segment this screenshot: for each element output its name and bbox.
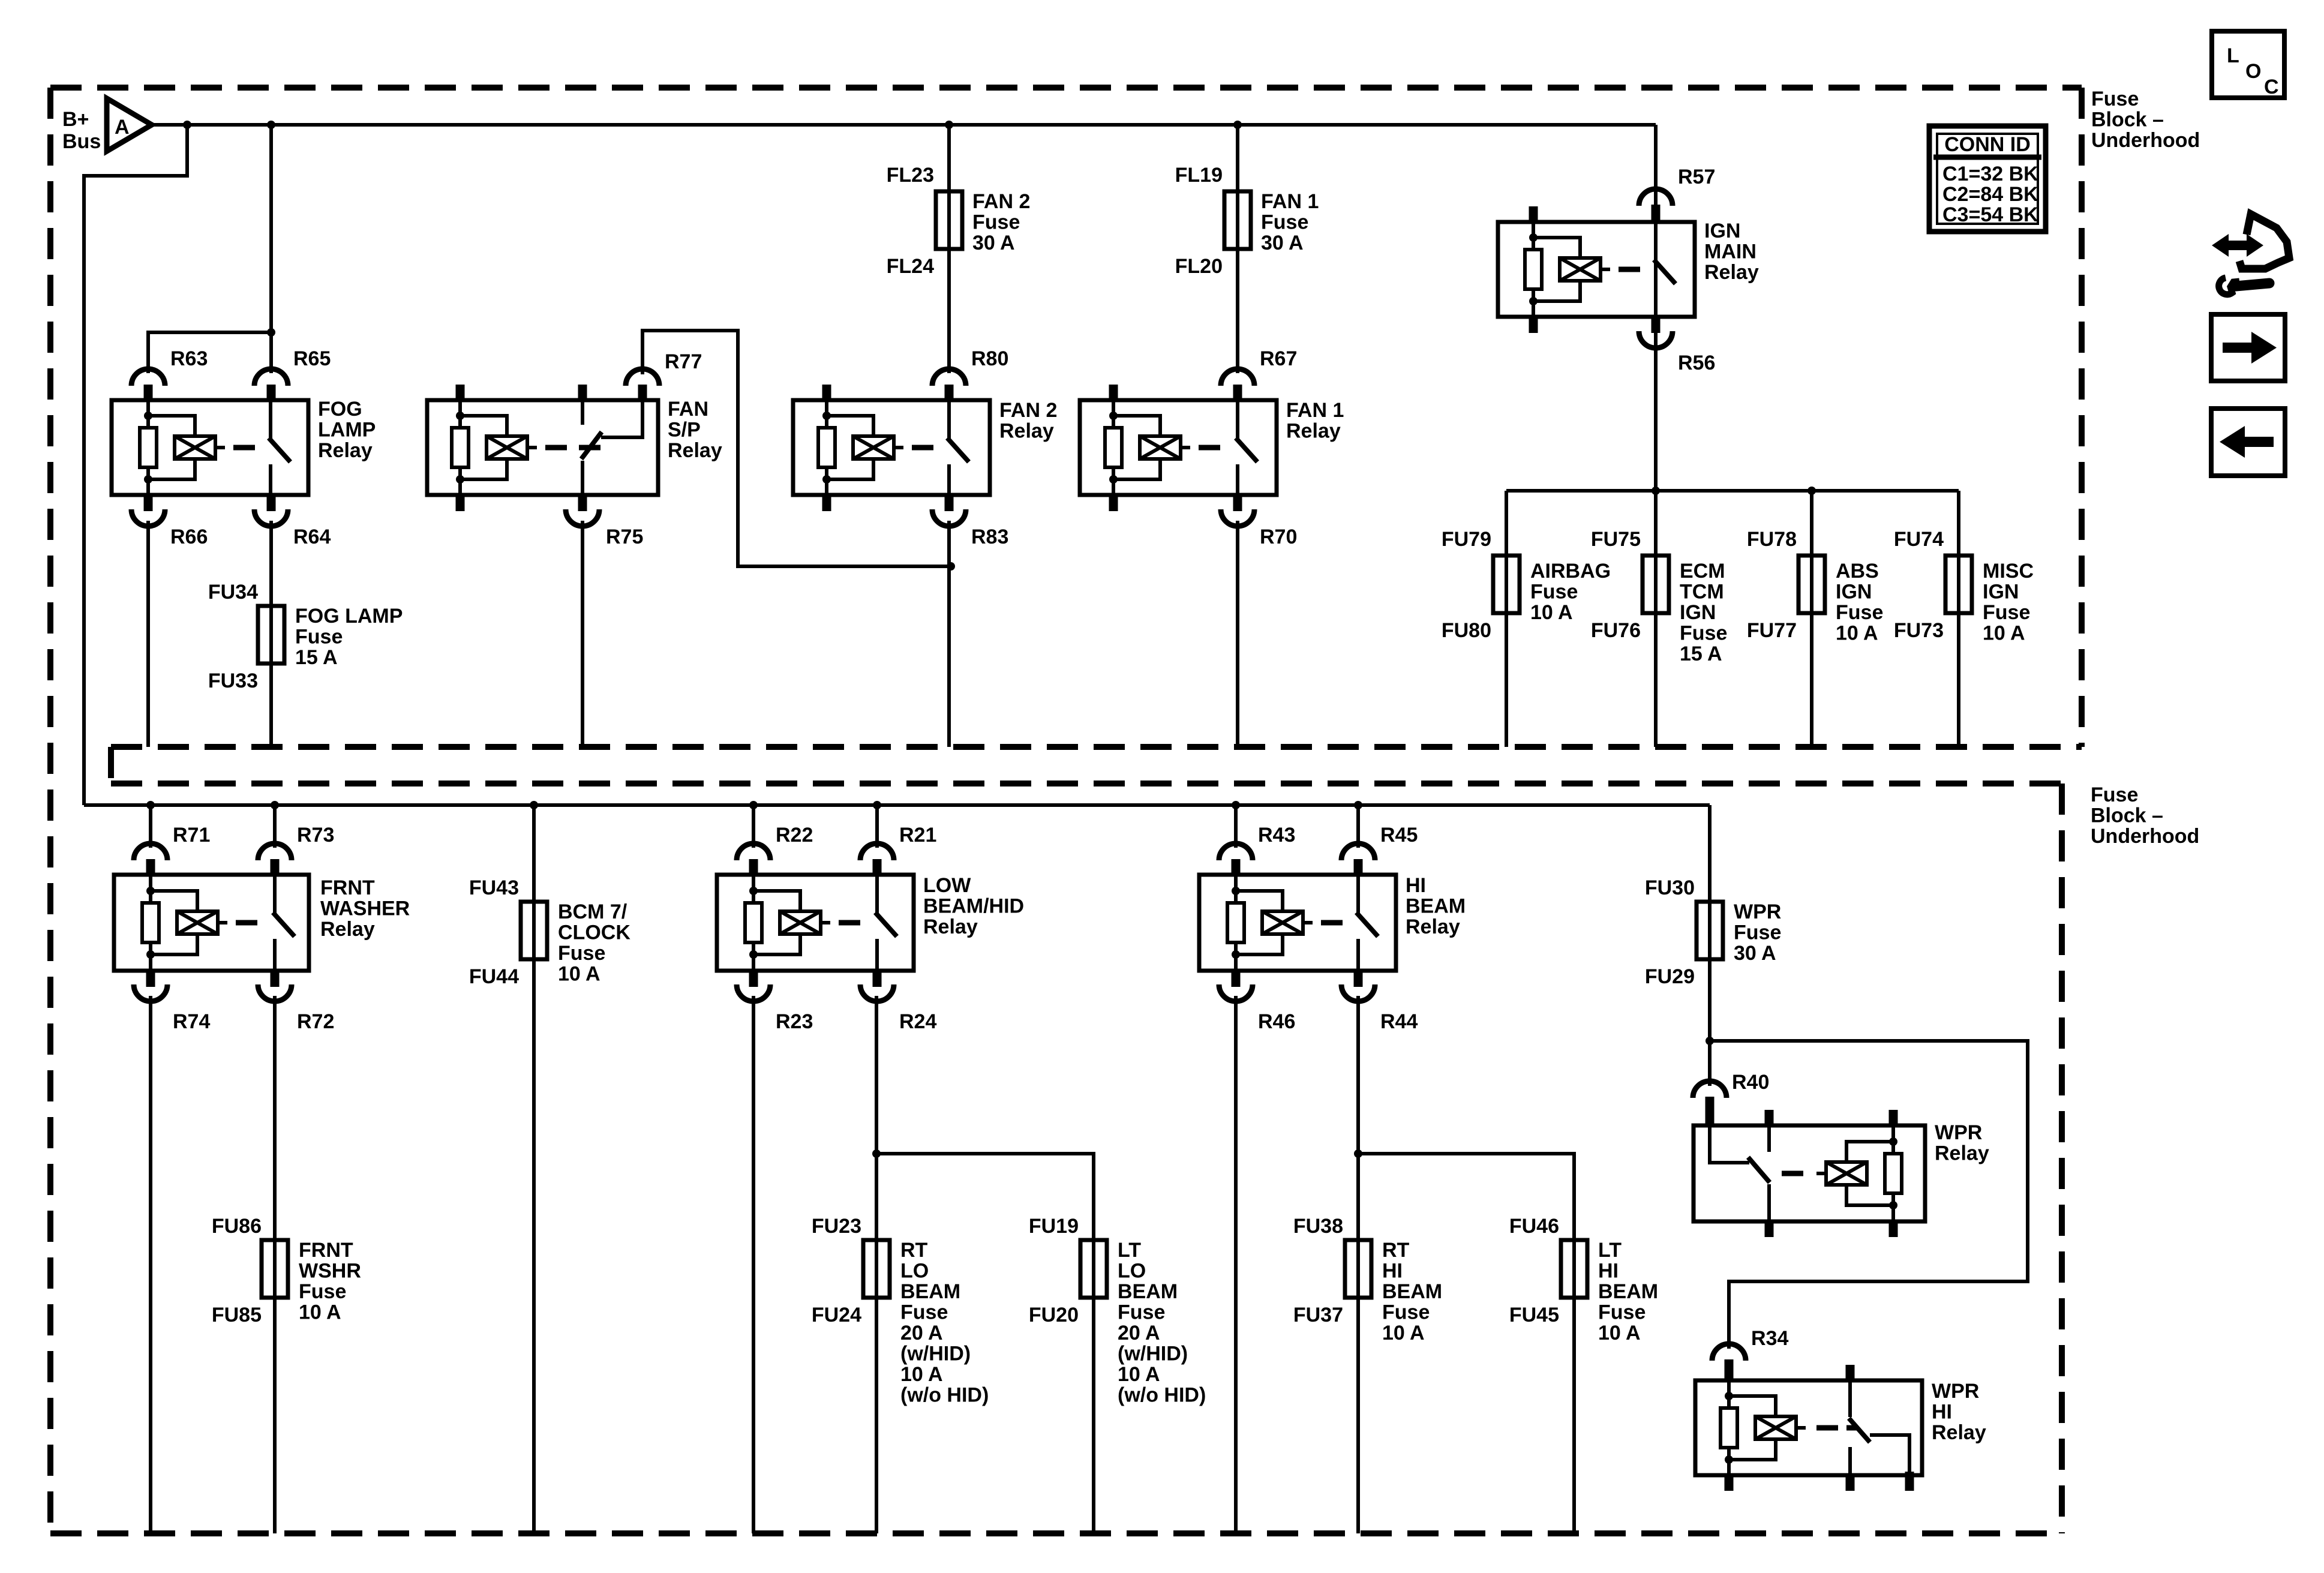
wire - R64 through FOG LAMP fuse to block edge [269,521,273,747]
svg-text:BEAM/HID: BEAM/HID [923,895,1024,918]
svg-text:Fuse: Fuse [299,1280,346,1303]
svg-text:10 A: 10 A [299,1301,341,1324]
connector R23 [749,969,758,987]
connector R73 [258,843,292,860]
wire - R75 to block edge [581,521,584,747]
svg-text:R70: R70 [1260,526,1297,548]
svg-text:S/P: S/P [668,419,701,442]
svg-text:Fuse: Fuse [2091,88,2139,110]
svg-text:BEAM: BEAM [1382,1280,1442,1303]
connector R57 [1639,189,1673,206]
wire - bus to R22 [752,805,755,848]
wire - R74 to block edge [149,996,152,1533]
svg-text:R56: R56 [1678,352,1715,374]
svg-text:FU85: FU85 [212,1304,262,1326]
connector R83 [945,493,954,511]
relay WPR HI switch bottom stub [1846,1473,1855,1491]
relay IGN MAIN box [1498,222,1695,317]
svg-text:FU44: FU44 [469,965,519,988]
svg-text:IGN: IGN [1704,220,1740,242]
svg-text:FU46: FU46 [1509,1215,1559,1238]
svg-text:R44: R44 [1380,1010,1418,1033]
wire - R23 to block edge [752,996,755,1533]
svg-text:(w/o HID): (w/o HID) [900,1384,989,1407]
relay FAN S/P switch fixed contact stub [578,385,587,402]
relay FAN 1 coil [1112,400,1115,495]
svg-text:FL23: FL23 [887,164,934,187]
svg-text:FU24: FU24 [812,1304,861,1326]
node - lower bus junction R71 [146,801,155,809]
relay FOG LAMP switch [269,400,272,439]
fuse WPR FU30/FU29 30 A [1697,902,1723,959]
svg-text:FL24: FL24 [887,255,934,278]
wire - branch to LT HI BEAM fuse [1358,1154,1574,1533]
connector R65 [254,369,288,386]
node - junction LT HI BEAM branch [1354,1149,1362,1158]
svg-text:O: O [2245,60,2261,83]
svg-text:FU79: FU79 [1442,528,1491,551]
node - bus junction R65 column [267,121,275,129]
svg-text:Relay: Relay [999,420,1054,443]
svg-text:Fuse: Fuse [1530,581,1578,604]
relay WPR HI coil bottom stub [1725,1473,1734,1491]
wire - lower fuse block bus [84,803,1710,807]
relay FAN 2 coil [825,400,828,495]
relay FAN 2 coil bottom stub [822,493,831,511]
svg-text:IGN: IGN [1983,581,2019,604]
svg-text:TCM: TCM [1680,581,1724,604]
svg-text:15 A: 15 A [1680,643,1722,665]
wire - R65 column from bus [269,125,273,373]
svg-text:Relay: Relay [1932,1421,1986,1444]
svg-text:BEAM: BEAM [1598,1280,1658,1303]
relay FAN 2 box [793,400,990,495]
svg-text:FAN: FAN [668,398,708,421]
wire - FAN 2 fuse column [947,125,951,373]
connector R75 [578,493,587,511]
navigation box arrow left [2211,409,2285,476]
relay WPR HI coil [1727,1380,1731,1475]
connector R46 [1232,969,1241,987]
wire - bus corner down through WPR fuse [1708,805,1712,1086]
svg-text:R63: R63 [170,347,208,370]
svg-text:Fuse: Fuse [972,211,1020,234]
relay HI BEAM coil [1234,875,1238,971]
node - junction R83/FAN S-P [947,562,955,571]
svg-text:WPR: WPR [1935,1121,1982,1144]
wire - top B+ bus [152,123,1656,127]
relay LOW BEAM/HID switch [875,875,879,913]
svg-text:FU76: FU76 [1591,619,1641,642]
connector R43 [1219,843,1253,860]
svg-text:BEAM: BEAM [900,1280,960,1303]
svg-text:FL20: FL20 [1175,255,1223,278]
svg-text:Fuse: Fuse [1261,211,1308,234]
svg-text:R72: R72 [297,1010,334,1033]
wire - BCM CLOCK fuse column [532,805,536,1533]
svg-text:C3=54 BK: C3=54 BK [1942,203,2038,226]
svg-text:FAN 1: FAN 1 [1261,190,1319,213]
fuse LT LO BEAM FU19/FU20 [1080,1240,1107,1298]
wire - R70 to block edge [1236,521,1239,747]
svg-text:Relay: Relay [668,439,722,462]
svg-text:R40: R40 [1732,1071,1769,1094]
svg-text:(w/o HID): (w/o HID) [1118,1384,1206,1407]
svg-text:FU86: FU86 [212,1215,262,1238]
svg-text:FU73: FU73 [1894,619,1944,642]
svg-text:FU75: FU75 [1591,528,1641,551]
svg-text:Fuse: Fuse [1598,1301,1646,1324]
connector R63 [131,369,165,386]
fuse BCM 7/CLOCK FU43/FU44 10 A [521,902,547,959]
svg-text:WSHR: WSHR [299,1260,361,1283]
fuse RT LO BEAM FU23/FU24 [863,1240,890,1298]
svg-text:Underhood: Underhood [2091,825,2199,848]
relay FOG LAMP box [112,400,308,495]
fuse block underhood (bottom) dashed border - bottom edge [50,1530,2062,1536]
fuse FRNT WSHR FU86/FU85 10 A [262,1240,288,1298]
svg-text:HI: HI [1406,874,1426,897]
relay FAN 1 coil top stub [1109,385,1118,402]
svg-text:FU19: FU19 [1029,1215,1079,1238]
node - junction ECM fuse column [1652,487,1660,495]
CONN ID table [1929,126,2046,232]
connector R44 [1354,969,1363,987]
svg-text:LO: LO [900,1260,929,1283]
fuse block underhood (bottom) dashed border - right edge [2059,784,2065,1533]
svg-text:R75: R75 [606,526,643,548]
wire - bus to R45 [1356,805,1360,848]
relay WPR coil bottom stub [1889,1220,1898,1237]
relay WPR coil [1891,1125,1895,1221]
relay HI BEAM switch [1356,875,1360,913]
svg-text:HI: HI [1932,1401,1952,1424]
wire - MISC fuse column [1957,491,1960,747]
svg-text:Relay: Relay [1704,261,1759,284]
svg-text:CONN ID: CONN ID [1944,133,2031,156]
svg-text:ECM: ECM [1680,560,1725,583]
svg-text:FOG: FOG [318,398,362,421]
svg-text:RT: RT [900,1239,928,1262]
wire - AIRBAG fuse column [1505,491,1508,747]
svg-text:10 A: 10 A [1530,601,1573,624]
svg-text:LT: LT [1118,1239,1141,1262]
svg-text:IGN: IGN [1680,601,1716,624]
svg-text:R77: R77 [665,350,702,373]
svg-text:Fuse: Fuse [1836,601,1883,624]
connector R66 [144,493,153,511]
node - junction ABS fuse column [1807,487,1816,495]
svg-text:FU80: FU80 [1442,619,1491,642]
relay FAN 2 coil top stub [822,385,831,402]
svg-text:R83: R83 [971,526,1008,548]
connector R21 [860,843,894,860]
fuse block underhood (top) dashed border - top edge [50,85,2082,91]
connector R34 [1712,1344,1746,1361]
svg-text:ABS: ABS [1836,560,1879,583]
svg-text:MISC: MISC [1983,560,2034,583]
svg-text:Relay: Relay [320,918,375,941]
connector R71 [134,843,167,860]
connector R74 [146,969,155,987]
svg-text:FU43: FU43 [469,876,519,899]
svg-text:R34: R34 [1751,1327,1788,1350]
relay WPR HI switch fixed contact stub [1846,1365,1855,1382]
svg-text:RT: RT [1382,1239,1410,1262]
svg-text:Relay: Relay [1286,420,1341,443]
fuse block underhood (bottom) dashed border - top edge [111,781,2062,786]
svg-text:FU23: FU23 [812,1215,861,1238]
svg-text:WASHER: WASHER [320,897,410,920]
relay FAN S/P switch [581,400,584,425]
connector R80 [932,369,966,386]
svg-text:MAIN: MAIN [1704,241,1756,263]
fuse RT HI BEAM FU38/FU37 10 A [1345,1240,1371,1298]
connector R72 [271,969,280,987]
relay LOW BEAM/HID box [717,875,914,971]
relay IGN MAIN coil bottom stub [1529,315,1538,333]
svg-text:Fuse: Fuse [1734,921,1781,944]
node - junction WPR HI branch [1706,1037,1714,1045]
relay WPR switch bottom stub [1765,1220,1774,1237]
svg-text:30 A: 30 A [1261,232,1304,254]
svg-text:10 A: 10 A [1983,622,2025,645]
svg-text:Underhood: Underhood [2091,129,2200,152]
svg-text:Fuse: Fuse [1118,1301,1165,1324]
svg-text:R57: R57 [1678,166,1715,188]
wire - bus to R43 [1234,805,1238,848]
connector R56 [1652,315,1661,333]
relay HI BEAM box [1199,875,1396,971]
node - bus junction FAN 2 fuse column [945,121,953,129]
svg-text:10 A: 10 A [1118,1363,1160,1386]
svg-text:FAN 1: FAN 1 [1286,399,1344,422]
component location icon (arrow and wrench) [2212,234,2263,257]
svg-text:LO: LO [1118,1260,1146,1283]
wire - ABS fuse column [1810,491,1813,747]
relay WPR switch [1767,1125,1771,1152]
svg-text:FAN 2: FAN 2 [972,190,1030,213]
svg-text:Block –: Block – [2091,804,2163,827]
svg-text:FRNT: FRNT [320,876,375,899]
svg-text:R22: R22 [776,824,813,846]
relay IGN MAIN switch [1654,222,1658,260]
svg-text:WPR: WPR [1734,900,1781,923]
svg-text:Relay: Relay [1406,915,1460,938]
svg-text:30 A: 30 A [1734,942,1776,965]
wire - bus to R71 [149,805,152,848]
svg-text:FU38: FU38 [1293,1215,1343,1238]
svg-text:Relay: Relay [1935,1142,1989,1165]
connector R64 [267,493,276,511]
svg-text:FU33: FU33 [208,670,258,692]
node - bus junction FAN 1 fuse column [1233,121,1242,129]
navigation box arrow right [2211,314,2285,381]
node - bus junction at B+ drop [183,121,191,129]
relay WPR HI switch bottom right stub [1905,1472,1914,1491]
svg-text:Fuse: Fuse [558,942,605,965]
svg-text:R73: R73 [297,824,334,846]
wire - B+ drop to lower fuse block [84,125,187,805]
svg-text:Fuse: Fuse [1382,1301,1430,1324]
svg-text:CLOCK: CLOCK [558,921,630,944]
svg-text:FU29: FU29 [1645,965,1695,988]
relay IGN MAIN coil top stub [1529,206,1538,224]
svg-text:10 A: 10 A [1836,622,1878,645]
svg-text:20 A: 20 A [900,1322,943,1344]
relay WPR HI box [1695,1380,1922,1475]
relay FAN 1 box [1080,400,1277,495]
svg-text:(w/HID): (w/HID) [900,1343,971,1365]
wire - R56 down to ignition fuse row [1654,343,1658,747]
svg-text:Fuse: Fuse [900,1301,948,1324]
svg-text:Fuse: Fuse [2091,784,2138,806]
fuse block underhood (top) dashed border - bottom edge [111,744,2082,750]
svg-text:B+: B+ [62,108,89,131]
svg-text:FL19: FL19 [1175,164,1223,187]
connector R70 [1233,493,1242,511]
fuse block underhood (top) dashed border - right edge [2079,88,2085,747]
node - lower bus junction BCM fuse [530,801,538,809]
relay WPR HI switch [1848,1380,1852,1417]
svg-text:10 A: 10 A [1598,1322,1641,1344]
svg-text:(w/HID): (w/HID) [1118,1343,1188,1365]
svg-text:R24: R24 [899,1010,936,1033]
svg-text:FU37: FU37 [1293,1304,1343,1326]
relay FAN 1 switch [1236,400,1239,439]
svg-text:C: C [2264,76,2279,98]
node - junction LT LO BEAM branch [872,1149,881,1158]
wire - bus to R21 [875,805,879,848]
connector R67 [1221,369,1254,386]
wire - FAN S/P contact elbow to R77 [601,400,642,437]
svg-text:R65: R65 [293,347,331,370]
svg-text:Block –: Block – [2091,109,2164,131]
svg-text:FRNT: FRNT [299,1239,353,1262]
svg-text:20 A: 20 A [1118,1322,1160,1344]
relay WPR box [1694,1125,1925,1221]
fuse FAN 1 FL19/FL20 30 A [1224,191,1251,249]
svg-text:10 A: 10 A [900,1363,943,1386]
relay FRNT WASHER coil [149,875,152,971]
relay FAN S/P box [427,400,658,495]
wire - WPR HI switch elbow to bottom right stub [1870,1435,1909,1473]
svg-text:HI: HI [1598,1260,1619,1283]
relay FAN S/P coil top stub [456,385,465,402]
wire - branch to WPR HI relay [1710,1041,2028,1349]
svg-text:AIRBAG: AIRBAG [1530,560,1611,583]
svg-text:FAN 2: FAN 2 [999,399,1057,422]
svg-text:10 A: 10 A [558,963,600,986]
fuse FAN 2 FL23/FL24 30 A [936,191,962,249]
wire - branch to R63 [148,332,271,373]
svg-text:Fuse: Fuse [295,626,343,649]
svg-text:R43: R43 [1258,824,1295,846]
relay FAN 2 switch [947,400,951,439]
svg-text:C2=84 BK: C2=84 BK [1942,183,2038,206]
wire - ignition fuse row feed [1506,489,1959,493]
svg-text:FU34: FU34 [208,581,258,604]
fuse AIRBAG FU79/FU80 10 A [1493,556,1520,613]
svg-text:FU74: FU74 [1894,528,1944,551]
svg-text:Bus: Bus [62,130,101,153]
fuse LT HI BEAM FU46/FU45 10 A [1561,1240,1587,1298]
connector R45 [1341,843,1375,860]
relay WPR coil top stub [1889,1110,1898,1127]
svg-text:10 A: 10 A [1382,1322,1425,1344]
svg-text:L: L [2227,44,2239,67]
wire - R24 through RT LO BEAM fuse to block edge [875,996,878,1533]
relay LOW BEAM/HID coil [752,875,755,971]
wire - R77 up and over to R83 column [642,331,951,566]
wire - R83 to block edge [947,521,951,747]
svg-text:R23: R23 [776,1010,813,1033]
svg-text:R71: R71 [173,824,210,846]
fuse ECM TCM IGN FU75/FU76 15 A [1643,556,1669,613]
node - lower bus junction R21 [873,801,881,809]
node - lower bus junction R73 [271,801,279,809]
svg-text:30 A: 30 A [972,232,1015,254]
svg-text:HI: HI [1382,1260,1403,1283]
svg-text:R21: R21 [899,824,936,846]
node - lower bus junction R45 [1354,801,1362,809]
relay FAN S/P coil [458,400,462,495]
svg-text:Relay: Relay [923,915,978,938]
connector R40 [1693,1081,1727,1098]
wire - FAN 1 fuse column [1236,125,1239,373]
node - lower bus junction R22 [749,801,758,809]
svg-text:R46: R46 [1258,1010,1295,1033]
svg-text:IGN: IGN [1836,581,1872,604]
svg-text:BCM 7/: BCM 7/ [558,900,627,923]
svg-text:15 A: 15 A [295,646,338,669]
relay WPR HI switch middle bottom line [1848,1447,1852,1475]
relay WPR switch fixed contact stub [1765,1110,1774,1127]
connector R24 [873,969,882,987]
svg-text:A: A [115,116,130,139]
wire - branch to LT LO BEAM fuse [876,1154,1094,1533]
fuse MISC IGN FU74/FU73 10 A [1945,556,1972,613]
svg-text:LT: LT [1598,1239,1622,1262]
connector R77 [638,385,647,402]
svg-text:R64: R64 [293,526,331,548]
svg-text:FU30: FU30 [1645,876,1695,899]
svg-text:WPR: WPR [1932,1380,1979,1403]
fuse ABS IGN FU78/FU77 10 A [1798,556,1825,613]
svg-text:BEAM: BEAM [1118,1280,1178,1303]
svg-text:LAMP: LAMP [318,419,376,442]
svg-text:LOW: LOW [923,874,971,897]
svg-text:FU77: FU77 [1747,619,1797,642]
wire - R72 through FRNT WSHR fuse to block edge [273,996,277,1533]
LOC legend box [2212,31,2284,98]
svg-text:Fuse: Fuse [1680,622,1727,645]
svg-text:R67: R67 [1260,347,1297,370]
svg-text:Relay: Relay [318,439,373,462]
svg-text:FOG LAMP: FOG LAMP [295,605,403,628]
wire - R46 to block edge [1234,996,1238,1533]
B+ bus source triangle A [107,98,152,151]
node - junction R63 branch [267,328,275,337]
wire - R44 through RT HI BEAM fuse to block edge [1356,996,1360,1533]
node - lower bus junction R43 [1232,801,1240,809]
relay FAN 1 coil bottom stub [1109,493,1118,511]
svg-text:FU45: FU45 [1509,1304,1559,1326]
svg-text:FU20: FU20 [1029,1304,1079,1326]
relay IGN MAIN coil [1532,222,1535,317]
svg-text:R66: R66 [170,526,208,548]
wire - bus to R73 [273,805,277,848]
